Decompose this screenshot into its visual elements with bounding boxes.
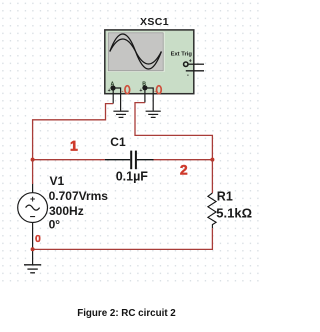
svg-text:0.1µF: 0.1µF [116,169,149,183]
svg-text:0°: 0° [49,218,61,232]
svg-text:+: + [189,58,192,64]
ground (scope A) [113,111,128,117]
svg-text:+: + [108,88,111,94]
pin (channel A plus, black stub) [112,89,114,104]
junction node 1 [31,158,35,162]
channel A terminal [108,82,124,95]
svg-text:300Hz: 300Hz [49,204,84,218]
svg-text:5.1kΩ: 5.1kΩ [216,206,252,221]
svg-text:+: + [30,194,35,204]
wire (node 2: scope B to junction) [135,103,212,160]
svg-text:0: 0 [35,233,41,245]
svg-text:R1: R1 [217,190,233,204]
wire (channel B minus pin to ground) [145,88,153,111]
oscilloscope XSC1 body [105,30,194,94]
node 0 label (channel A) [125,86,130,94]
wire (junction 1 down to V1) [32,160,34,184]
wire (channel A minus pin to ground) [113,88,120,111]
svg-text:+: + [139,88,142,94]
capacitor C1 [105,151,154,170]
svg-text:C1: C1 [110,135,126,149]
svg-text:1: 1 [70,138,78,154]
resistor R1 [208,193,216,228]
svg-text:Ext Trig: Ext Trig [171,52,193,58]
svg-text:0.707Vrms: 0.707Vrms [49,189,109,203]
wire (junction 2 down to R1) [211,160,213,193]
svg-text:-: - [187,73,189,79]
source V1 [18,184,48,265]
node 0 label (channel B) [157,86,162,94]
ground (scope B) [146,111,161,117]
channel B terminal [139,82,156,95]
pin (channel B plus, black stub) [144,89,146,103]
wire (node 1: scope A to junction) [33,104,114,160]
svg-text:XSC1: XSC1 [140,16,169,28]
wire (junction 1 to C1 left lead) [33,159,105,161]
svg-text:V1: V1 [50,174,65,188]
svg-text:2: 2 [180,161,188,177]
wire (C1 right lead to junction 2) [154,159,213,161]
svg-text:Figure 2: RC circuit 2: Figure 2: RC circuit 2 [77,308,176,319]
svg-text:-: - [122,88,124,94]
Ext Trig terminal [171,52,204,79]
svg-text:−: − [30,212,36,223]
junction node 2 [210,158,214,162]
wire (R1 bottom to ground rail) [33,228,213,249]
ground (below V1) [24,265,41,273]
junction node 0 [31,247,35,251]
